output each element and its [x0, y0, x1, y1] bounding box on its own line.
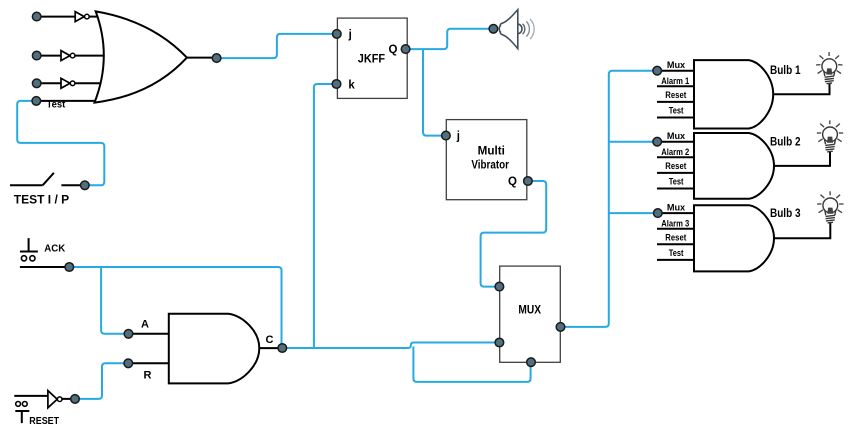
- svg-text:Mux: Mux: [667, 60, 686, 71]
- svg-text:ACK: ACK: [44, 243, 65, 255]
- svg-text:Q: Q: [389, 44, 398, 56]
- svg-text:Bulb 2: Bulb 2: [770, 135, 801, 149]
- svg-text:k: k: [348, 79, 355, 91]
- svg-text:Test: Test: [669, 248, 684, 259]
- svg-text:Mux: Mux: [667, 203, 686, 214]
- svg-text:A: A: [141, 319, 149, 331]
- svg-text:Test: Test: [47, 100, 66, 111]
- svg-text:Mux: Mux: [667, 131, 686, 142]
- svg-text:JKFF: JKFF: [358, 54, 385, 66]
- svg-text:Alarm 3: Alarm 3: [661, 218, 689, 229]
- svg-text:j: j: [348, 29, 352, 41]
- svg-text:Multi: Multi: [478, 146, 505, 158]
- svg-text:C: C: [266, 334, 274, 346]
- svg-text:Alarm 2: Alarm 2: [661, 147, 689, 158]
- svg-text:j: j: [456, 130, 460, 142]
- svg-text:MUX: MUX: [518, 305, 541, 317]
- svg-text:Reset: Reset: [665, 233, 687, 244]
- svg-text:Reset: Reset: [665, 161, 687, 172]
- svg-text:TEST I / P: TEST I / P: [14, 192, 69, 206]
- svg-text:Bulb 3: Bulb 3: [770, 206, 801, 220]
- svg-text:Alarm 1: Alarm 1: [661, 76, 690, 87]
- svg-text:Bulb 1: Bulb 1: [770, 63, 801, 77]
- svg-text:Test: Test: [669, 106, 684, 117]
- svg-text:Reset: Reset: [665, 90, 687, 101]
- svg-text:RESET: RESET: [29, 415, 59, 427]
- svg-text:R: R: [144, 370, 152, 382]
- svg-text:Q: Q: [508, 176, 517, 188]
- svg-text:Vibrator: Vibrator: [471, 159, 509, 171]
- svg-text:Test: Test: [669, 177, 684, 188]
